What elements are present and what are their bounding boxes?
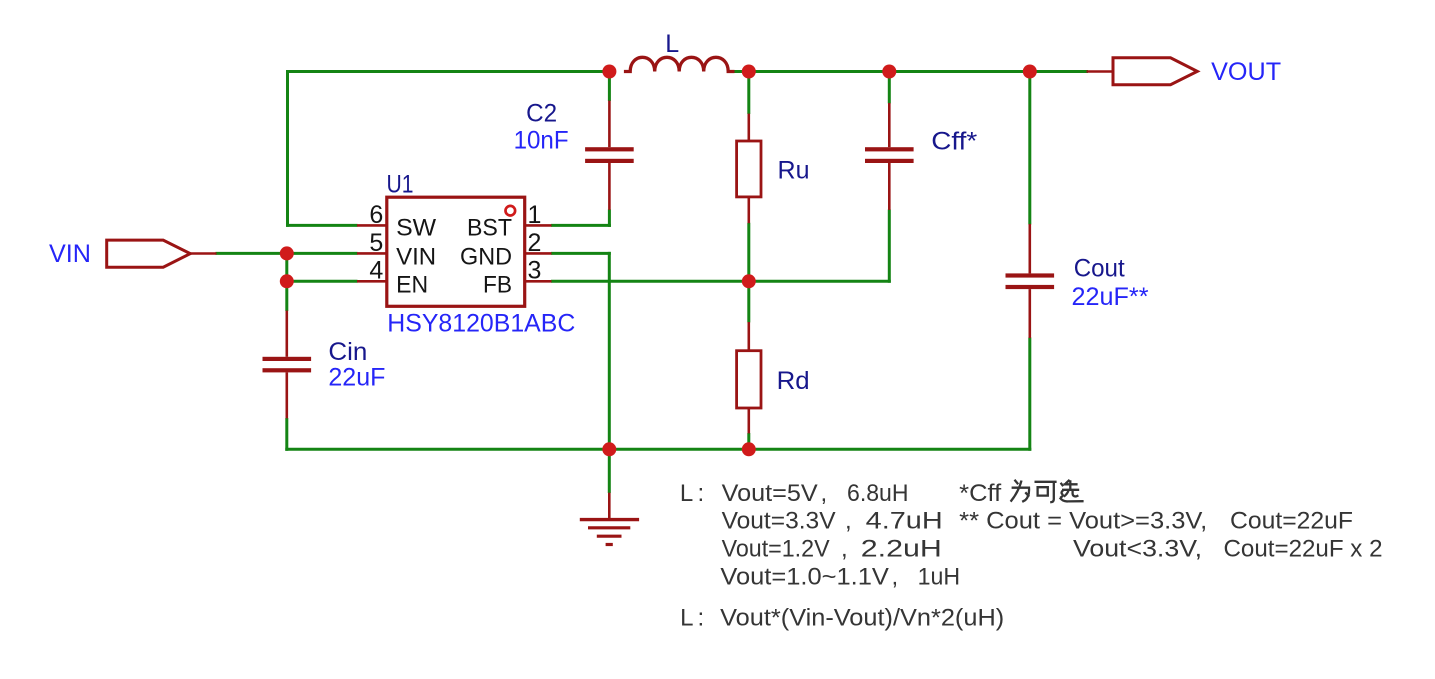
svg-text:VIN: VIN <box>396 243 436 270</box>
wire GND net: Rd bottom lead to bottom rail <box>747 433 750 449</box>
note line3 2.2uH <box>861 536 942 563</box>
capacitor Cin <box>263 311 312 419</box>
pin number 4 <box>369 257 383 285</box>
reference Cin <box>328 338 367 366</box>
value 22uF** <box>1072 283 1149 311</box>
svg-text:VOUT: VOUT <box>1211 58 1281 86</box>
wire SW net: vertical from top rail down to pin 6 <box>286 70 289 227</box>
pin 3 stub FB <box>526 280 552 283</box>
value 22uF <box>328 364 385 392</box>
node junction top rail / Ru branch (L output) <box>742 65 756 79</box>
svg-text:U1: U1 <box>387 171 414 199</box>
note line1 *Cff <box>959 480 1001 507</box>
wire VOUT net: top rail junction down to Ru top lead <box>747 70 750 114</box>
svg-text:,: , <box>845 508 852 535</box>
svg-text:22uF: 22uF <box>328 364 385 392</box>
svg-text:,: , <box>841 536 848 563</box>
pin name BST <box>467 215 512 242</box>
note line2 Cout=22uF <box>1230 508 1353 535</box>
wire VOUT net: top rail junction down to Cout top lead <box>1028 70 1031 225</box>
note line2 comma <box>845 508 852 535</box>
pin name EN <box>396 271 428 298</box>
pin 2 stub GND <box>526 252 552 255</box>
note line4 1uH <box>918 564 961 591</box>
pin 1 stub BST <box>526 224 552 227</box>
svg-text:Rd: Rd <box>777 367 810 395</box>
pin number 3 <box>528 257 542 285</box>
note line4 comma <box>892 564 899 591</box>
label Rd <box>777 367 810 395</box>
wire SW net: horizontal into pin 6 <box>286 224 358 227</box>
svg-text:6.8uH: 6.8uH <box>847 480 909 507</box>
label L <box>665 30 679 58</box>
svg-text:22uF**: 22uF** <box>1072 283 1149 311</box>
svg-text:4: 4 <box>369 257 383 285</box>
note line3 Cout=22uF x 2 <box>1224 536 1383 563</box>
svg-text:BST: BST <box>467 215 512 242</box>
svg-text:,: , <box>821 480 828 507</box>
wire VOUT net: top rail junction down to Cff top lead <box>888 70 891 103</box>
pin name VIN <box>396 243 436 270</box>
resistor Rd <box>737 322 761 433</box>
svg-text:1uH: 1uH <box>918 564 961 591</box>
svg-text::: : <box>698 605 705 632</box>
svg-text:Cout: Cout <box>1074 254 1125 282</box>
svg-text:Ru: Ru <box>778 157 810 185</box>
svg-text:Vout=1.2V: Vout=1.2V <box>722 536 830 563</box>
wire VOUT net: top rail from L output to VOUT stub <box>734 70 1088 73</box>
pin stub of VIN connector <box>189 252 217 255</box>
note line2 Vout=3.3V <box>722 508 836 535</box>
svg-text:EN: EN <box>396 271 428 298</box>
reference Cout <box>1074 254 1125 282</box>
note line1 Chinese 选 <box>1060 480 1084 502</box>
pin 4 stub EN <box>357 280 386 283</box>
wire VIN net: vertical junction to junction to Cin top <box>285 253 288 311</box>
note line6 L <box>680 605 693 632</box>
svg-text:GND: GND <box>460 243 512 270</box>
svg-text:10nF: 10nF <box>514 127 569 155</box>
node junction top rail / Cff branch <box>882 65 896 79</box>
label Ru <box>778 157 810 185</box>
svg-text:1: 1 <box>528 201 542 229</box>
svg-text:L: L <box>680 605 693 632</box>
reference Cff* <box>931 128 977 156</box>
port connector VOUT <box>1113 58 1197 85</box>
pin 5 stub VIN <box>357 252 386 255</box>
node junction top rail / C2 branch <box>602 65 616 79</box>
capacitor C2 <box>585 101 634 210</box>
pin stub of VOUT connector <box>1087 70 1115 73</box>
svg-text:Cff*: Cff* <box>931 128 977 156</box>
note line4 Vout=1.0~1.1V <box>720 564 889 591</box>
wire FB net: pin 3 across to Cff corner <box>551 280 891 283</box>
note line3 Vout=1.2V <box>722 536 830 563</box>
note line3 Vout<3.3V, <box>1073 536 1202 563</box>
svg-text:4.7uH: 4.7uH <box>866 508 943 535</box>
wire GND net: pin 2 to corner <box>551 252 611 255</box>
BST pin polarity ring on U1 <box>506 206 516 216</box>
wire FB net: Cff bottom lead down to FB wire <box>888 210 891 283</box>
reference U1 <box>387 171 414 199</box>
pin 6 stub SW <box>357 224 386 227</box>
svg-text:L: L <box>665 30 679 58</box>
wire GND net: vertical from pin 2 corner down to bottom rail <box>608 252 611 449</box>
node junction VIN net at pin 4 <box>280 274 294 288</box>
note line2 4.7uH <box>866 508 943 535</box>
wire GND net: bottom rail junction down to ground symbol <box>608 449 611 493</box>
svg-text:Vout<3.3V,: Vout<3.3V, <box>1073 536 1202 563</box>
pin name SW <box>396 215 436 242</box>
node junction top rail / Cout branch <box>1023 65 1037 79</box>
svg-text:6: 6 <box>369 201 383 229</box>
note line1 comma <box>821 480 828 507</box>
svg-text:2.2uH: 2.2uH <box>861 536 942 563</box>
node junction bottom rail / ground <box>602 442 616 456</box>
port connector VIN <box>107 240 191 267</box>
note line3 comma <box>841 536 848 563</box>
pin name GND <box>460 243 512 270</box>
svg-text:HSY8120B1ABC: HSY8120B1ABC <box>387 310 575 338</box>
svg-text:Vout*(Vin-Vout)/Vn*2(uH): Vout*(Vin-Vout)/Vn*2(uH) <box>720 605 1004 632</box>
note line6 formula <box>720 605 1004 632</box>
svg-text:Cout=22uF: Cout=22uF <box>1230 508 1353 535</box>
svg-text:** Cout = Vout>=3.3V,: ** Cout = Vout>=3.3V, <box>959 508 1207 535</box>
wire EN net: junction to pin 4 <box>287 280 358 283</box>
op-amp U1 body outline HSY8120B1ABC <box>387 197 525 306</box>
note line1 Chinese 可 <box>1035 482 1057 502</box>
node junction VIN net at pin 5 <box>280 246 294 260</box>
wire GND net: bottom rail <box>285 448 1031 451</box>
note line1 Vout=5V <box>722 480 818 507</box>
svg-text:L: L <box>680 480 693 507</box>
wire GND net: Cout bottom lead down to bottom rail corner <box>1028 338 1031 451</box>
wire GND net: Cin bottom to bottom rail corner <box>285 418 288 451</box>
svg-text::: : <box>698 480 705 507</box>
capacitor Cff <box>865 103 914 210</box>
svg-text:Cin: Cin <box>328 338 367 366</box>
wire BST net: pin 1 to corner under C2 <box>551 224 611 227</box>
value 10nF <box>514 127 569 155</box>
note line1 L <box>680 480 693 507</box>
pin number 5 <box>369 229 383 257</box>
note line2 ** Cout = Vout>=3.3V, <box>959 508 1207 535</box>
wire FB net: FB junction down to Rd top lead <box>747 281 750 322</box>
part number HSY8120B1ABC <box>387 310 575 338</box>
resistor Ru <box>737 114 761 224</box>
svg-text:Vout=3.3V: Vout=3.3V <box>722 508 836 535</box>
svg-text:3: 3 <box>528 257 542 285</box>
label VIN <box>49 240 91 268</box>
svg-text:Vout=5V: Vout=5V <box>722 480 818 507</box>
pin number 1 <box>528 201 542 229</box>
wire BST net: vertical up to C2 bottom lead <box>608 209 611 227</box>
svg-text:,: , <box>892 564 899 591</box>
wire SW net: top rail from left corner to L input <box>286 70 611 73</box>
wire FB net: Ru bottom lead down to FB junction <box>747 223 750 281</box>
capacitor Cout <box>1006 224 1055 338</box>
wire VIN net: from connector to pin 5 <box>216 252 358 255</box>
svg-text:2: 2 <box>528 229 542 257</box>
svg-text:C2: C2 <box>526 100 557 128</box>
node junction bottom rail / Rd <box>742 442 756 456</box>
svg-text:VIN: VIN <box>49 240 91 268</box>
inductor L <box>624 57 735 71</box>
wire SW net: C2 top lead down from top rail <box>608 70 611 101</box>
note line1 Chinese 为 <box>1011 480 1030 502</box>
pin name FB <box>483 271 512 298</box>
svg-text:SW: SW <box>396 215 436 242</box>
node junction FB net Ru/Rd <box>742 274 756 288</box>
label VOUT <box>1211 58 1281 86</box>
svg-text:Vout=1.0~1.1V: Vout=1.0~1.1V <box>720 564 889 591</box>
note line6 colon <box>698 605 705 632</box>
pin number 6 <box>369 201 383 229</box>
svg-text:Cout=22uF x 2: Cout=22uF x 2 <box>1224 536 1383 563</box>
svg-text:*Cff: *Cff <box>959 480 1001 507</box>
ground <box>580 493 639 545</box>
svg-text:5: 5 <box>369 229 383 257</box>
note line1 colon <box>698 480 705 507</box>
pin number 2 <box>528 229 542 257</box>
note line1 6.8uH <box>847 480 909 507</box>
reference C2 <box>526 100 557 128</box>
svg-text:FB: FB <box>483 271 512 298</box>
